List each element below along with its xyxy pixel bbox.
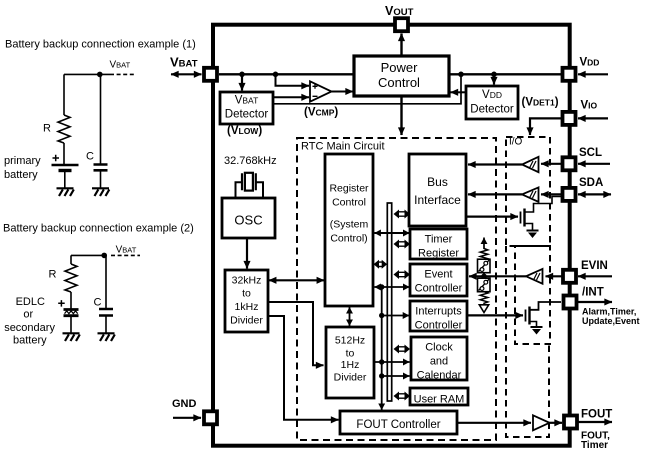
svg-text:secondary: secondary [4,322,55,334]
svg-text:FOUT Controller: FOUT Controller [356,419,440,431]
svg-text:C: C [86,151,94,163]
svg-text:1kHz: 1kHz [235,301,259,313]
svg-text:User RAM: User RAM [414,394,465,406]
svg-text:VBAT: VBAT [110,59,131,70]
svg-text:Event: Event [424,269,452,281]
svg-text:battery: battery [4,169,38,181]
svg-text:(VCMP): (VCMP) [304,107,338,119]
svg-text:Bus: Bus [427,175,448,189]
svg-text:Divider: Divider [334,372,367,384]
svg-text:and: and [430,356,448,368]
svg-text:Interface: Interface [414,193,461,207]
svg-text:Timer: Timer [425,234,453,246]
svg-text:Controller: Controller [415,320,463,332]
svg-text:FOUT: FOUT [581,409,612,421]
svg-text:512Hz: 512Hz [335,335,365,347]
svg-text:1Hz: 1Hz [341,359,360,371]
svg-text:Control: Control [378,75,420,90]
svg-text:VBAT: VBAT [235,95,259,107]
svg-text:RTC Main Circuit: RTC Main Circuit [301,141,385,153]
svg-text:C: C [94,297,102,309]
svg-text:Battery backup connection exam: Battery backup connection example (1) [5,39,196,51]
svg-text:to: to [346,348,355,360]
svg-text:Power: Power [381,60,419,75]
svg-text:32.768kHz: 32.768kHz [224,155,277,167]
svg-text:VDD: VDD [580,57,600,69]
svg-text:to: to [242,288,251,300]
svg-text:OSC: OSC [234,213,262,228]
svg-text:Timer: Timer [581,440,608,451]
svg-text:I/O: I/O [509,136,523,147]
svg-text:SCL: SCL [579,147,602,159]
svg-text:Control: Control [332,197,366,209]
svg-text:Divider: Divider [230,315,263,327]
svg-text:Detector: Detector [225,109,269,121]
svg-text:EDLC: EDLC [16,296,45,308]
svg-text:or: or [23,309,33,321]
svg-text:Battery backup connection exam: Battery backup connection example (2) [3,223,194,235]
svg-text:/INT: /INT [582,286,604,298]
svg-text:Register: Register [329,183,369,195]
svg-text:Register: Register [418,248,459,260]
svg-text:(VDET1): (VDET1) [522,97,559,109]
svg-text:32kHz: 32kHz [232,275,262,287]
svg-text:(VLOW): (VLOW) [227,125,262,137]
svg-text:Clock: Clock [425,342,453,354]
svg-text:VIO: VIO [581,100,598,112]
svg-text:Control): Control) [330,233,367,245]
svg-text:Detector: Detector [470,104,514,116]
svg-text:(System: (System [330,219,369,231]
svg-text:R: R [49,269,57,281]
svg-text:VDD: VDD [482,89,502,101]
svg-text:Update,Event: Update,Event [582,316,640,326]
svg-text:EVIN: EVIN [581,260,608,272]
svg-text:R: R [43,123,51,135]
svg-text:primary: primary [4,155,41,167]
svg-text:Alarm,Timer,: Alarm,Timer, [582,307,636,317]
svg-text:VBAT: VBAT [116,244,137,255]
svg-text:battery: battery [13,335,47,347]
svg-text:Controller: Controller [415,283,463,295]
svg-text:GND: GND [172,398,197,410]
svg-text:SDA: SDA [579,177,603,189]
svg-text:Calendar: Calendar [417,370,462,382]
svg-text:VOUT: VOUT [385,4,414,18]
svg-text:Interrupts: Interrupts [415,306,462,318]
